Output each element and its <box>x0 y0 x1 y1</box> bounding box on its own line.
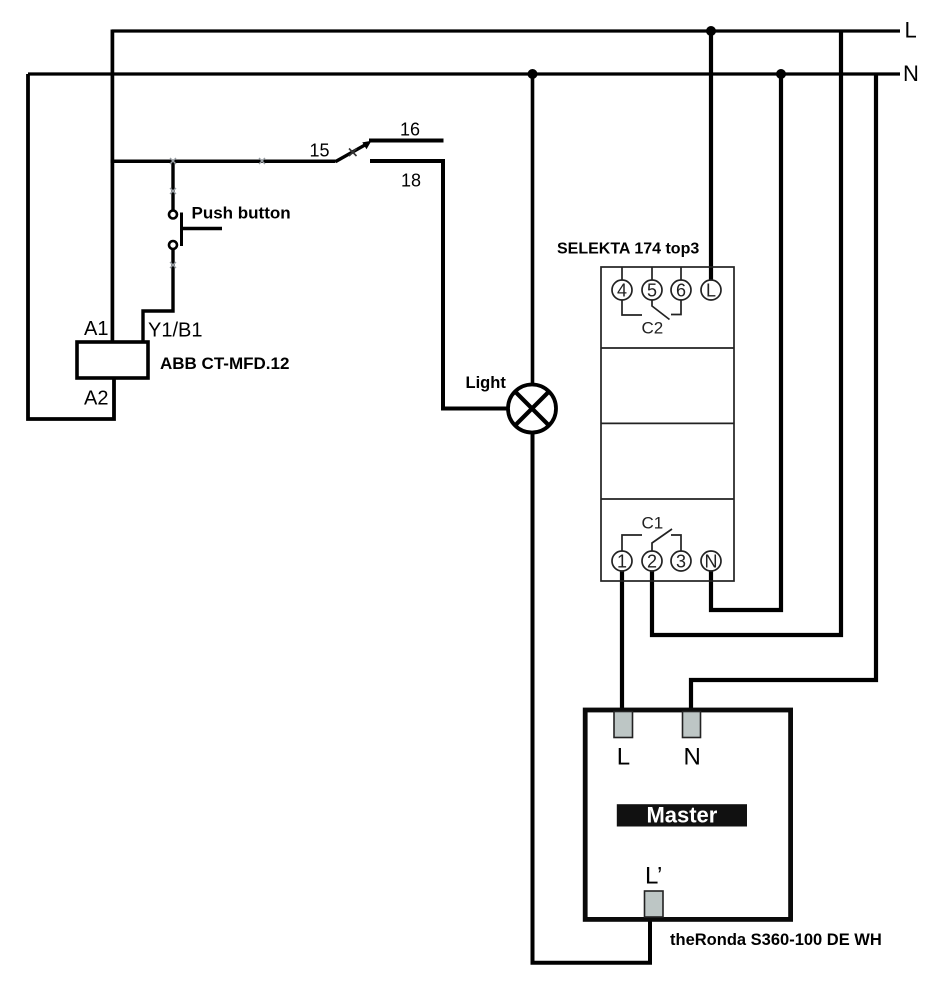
svg-text:16: 16 <box>400 120 420 140</box>
svg-text:L: L <box>905 18 917 43</box>
svg-text:Master: Master <box>646 803 717 828</box>
svg-text:1: 1 <box>617 552 627 572</box>
svg-text:2: 2 <box>647 552 657 572</box>
svg-text:N: N <box>903 61 919 86</box>
svg-text:N: N <box>684 744 701 771</box>
svg-text:5: 5 <box>647 281 657 301</box>
svg-text:L: L <box>617 744 630 771</box>
svg-text:18: 18 <box>401 171 421 191</box>
svg-text:Y1/B1: Y1/B1 <box>148 320 202 342</box>
svg-text:ABB CT-MFD.12: ABB CT-MFD.12 <box>160 354 289 373</box>
svg-text:A2: A2 <box>84 388 108 410</box>
svg-text:6: 6 <box>676 281 686 301</box>
svg-text:A1: A1 <box>84 318 108 340</box>
svg-text:theRonda S360-100 DE WH: theRonda S360-100 DE WH <box>670 931 882 949</box>
svg-text:Push button: Push button <box>192 204 291 223</box>
svg-text:3: 3 <box>676 552 686 572</box>
svg-text:L: L <box>706 281 716 301</box>
svg-text:C2: C2 <box>642 319 664 338</box>
svg-text:L’: L’ <box>645 863 662 890</box>
svg-text:4: 4 <box>617 281 627 301</box>
svg-text:15: 15 <box>310 141 330 161</box>
svg-text:SELEKTA 174 top3: SELEKTA 174 top3 <box>557 241 699 258</box>
svg-text:C1: C1 <box>642 514 664 533</box>
svg-text:Light: Light <box>466 374 507 392</box>
svg-text:N: N <box>705 552 718 572</box>
